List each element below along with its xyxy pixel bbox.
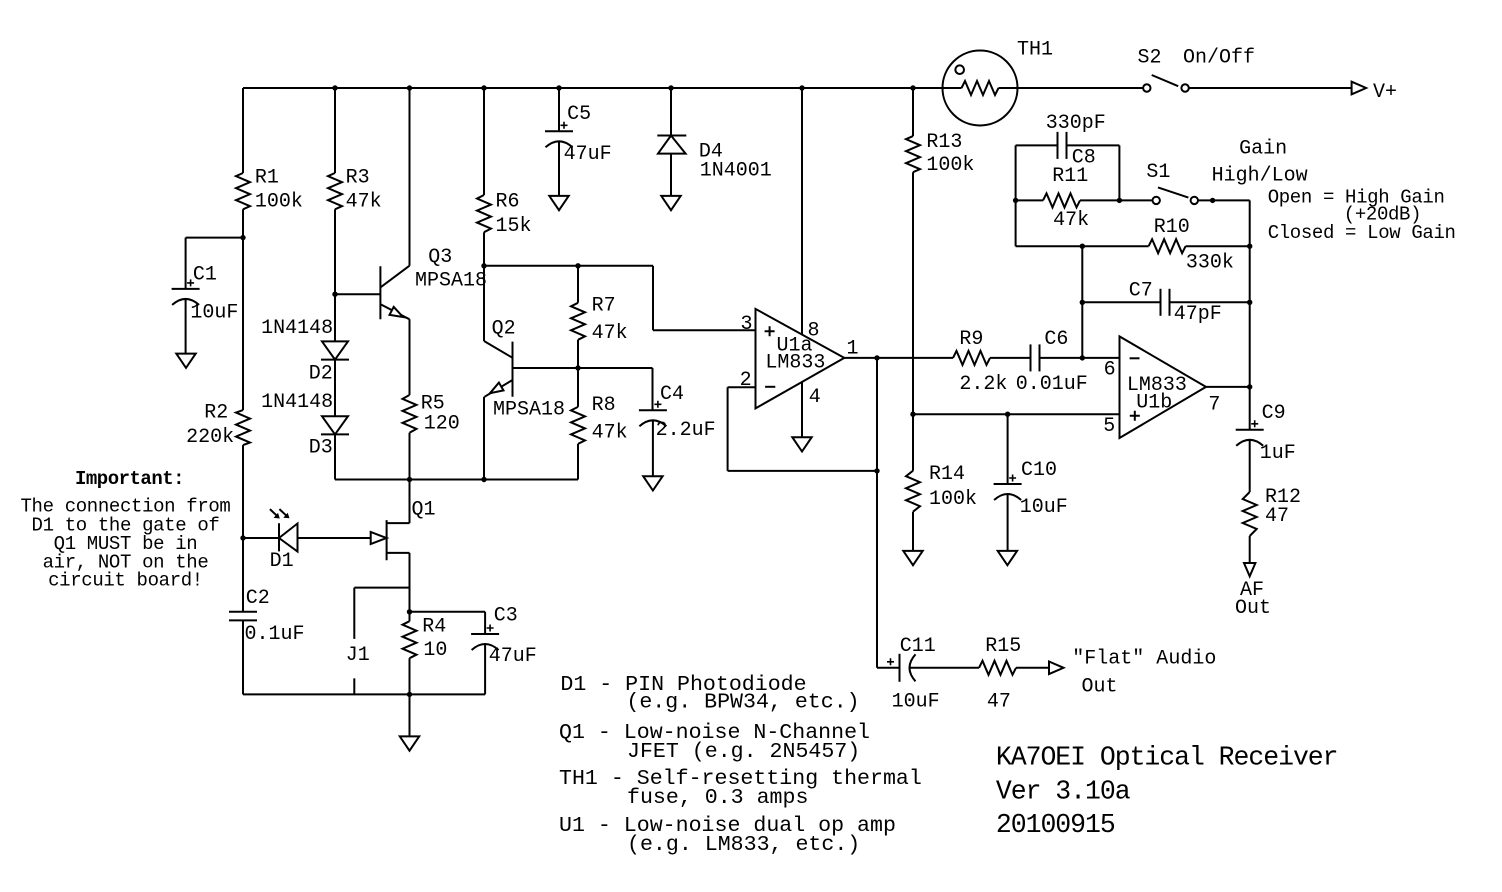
svg-text:120: 120	[424, 412, 460, 435]
svg-text:C4: C4	[660, 383, 684, 406]
svg-text:100k: 100k	[926, 154, 974, 177]
svg-text:15k: 15k	[496, 215, 532, 238]
svg-text:R14: R14	[929, 463, 965, 486]
svg-text:Q1: Q1	[412, 498, 436, 521]
svg-text:circuit board!: circuit board!	[48, 570, 203, 592]
svg-text:10: 10	[423, 639, 447, 662]
svg-text:1: 1	[847, 337, 859, 360]
svg-text:C3: C3	[494, 604, 518, 627]
svg-text:Out: Out	[1235, 597, 1271, 620]
svg-text:C6: C6	[1044, 328, 1068, 351]
svg-text:1N4148: 1N4148	[261, 317, 333, 340]
svg-text:C1: C1	[193, 264, 217, 287]
svg-text:4: 4	[809, 386, 821, 409]
svg-text:2.2k: 2.2k	[959, 373, 1007, 396]
svg-text:5: 5	[1103, 415, 1115, 438]
svg-text:47k: 47k	[592, 422, 628, 445]
svg-text:R15: R15	[985, 635, 1021, 658]
svg-text:R13: R13	[926, 131, 962, 154]
svg-text:1N4001: 1N4001	[700, 160, 772, 183]
svg-text:fuse, 0.3 amps: fuse, 0.3 amps	[627, 786, 808, 810]
svg-text:3: 3	[741, 313, 753, 336]
svg-text:47uF: 47uF	[564, 143, 612, 166]
svg-text:10uF: 10uF	[190, 301, 238, 324]
svg-text:C5: C5	[567, 103, 591, 126]
svg-text:R10: R10	[1154, 216, 1190, 239]
svg-text:MPSA18: MPSA18	[493, 399, 565, 422]
svg-text:R11: R11	[1052, 165, 1088, 188]
svg-text:7: 7	[1208, 394, 1220, 417]
svg-text:R9: R9	[959, 328, 983, 351]
svg-text:10uF: 10uF	[892, 690, 940, 713]
svg-text:D2: D2	[309, 362, 333, 385]
svg-text:R4: R4	[422, 616, 446, 639]
svg-text:S2: S2	[1138, 47, 1162, 70]
svg-text:330k: 330k	[1186, 252, 1234, 275]
svg-text:S1: S1	[1146, 161, 1170, 184]
svg-text:Gain: Gain	[1239, 138, 1287, 161]
svg-text:R8: R8	[592, 394, 616, 417]
svg-text:"Flat" Audio: "Flat" Audio	[1072, 648, 1216, 671]
svg-text:Q2: Q2	[492, 318, 516, 341]
svg-text:R2: R2	[204, 402, 228, 425]
svg-text:47k: 47k	[346, 191, 382, 214]
svg-text:220k: 220k	[186, 426, 234, 449]
svg-text:R6: R6	[496, 191, 520, 214]
svg-text:20100915: 20100915	[996, 810, 1115, 840]
svg-text:On/Off: On/Off	[1183, 47, 1255, 70]
svg-text:330pF: 330pF	[1046, 112, 1106, 135]
svg-text:100k: 100k	[929, 488, 977, 511]
svg-text:10uF: 10uF	[1020, 496, 1068, 519]
svg-text:1uF: 1uF	[1260, 442, 1296, 465]
svg-text:Q3: Q3	[428, 246, 452, 269]
svg-text:V+: V+	[1373, 81, 1397, 104]
svg-text:47: 47	[987, 690, 1011, 713]
svg-text:47k: 47k	[1053, 209, 1089, 232]
svg-text:R3: R3	[346, 166, 370, 189]
svg-text:R7: R7	[592, 294, 616, 317]
svg-text:(e.g. LM833, etc.): (e.g. LM833, etc.)	[627, 833, 860, 857]
svg-text:High/Low: High/Low	[1212, 165, 1308, 188]
svg-text:100k: 100k	[255, 191, 303, 214]
svg-text:0.1uF: 0.1uF	[245, 623, 305, 646]
svg-text:D3: D3	[309, 437, 333, 460]
svg-text:47: 47	[1265, 505, 1289, 528]
svg-text:47uF: 47uF	[489, 645, 537, 668]
svg-text:Important:: Important:	[75, 468, 184, 490]
svg-text:2: 2	[740, 369, 752, 392]
svg-text:2.2uF: 2.2uF	[656, 419, 716, 442]
svg-text:KA7OEI Optical Receiver: KA7OEI Optical Receiver	[996, 743, 1338, 773]
svg-text:47k: 47k	[592, 322, 628, 345]
svg-text:TH1: TH1	[1017, 39, 1053, 62]
svg-text:C11: C11	[900, 635, 936, 658]
svg-text:MPSA18: MPSA18	[415, 269, 487, 292]
svg-text:C9: C9	[1262, 402, 1286, 425]
svg-text:C2: C2	[246, 587, 270, 610]
svg-text:Closed = Low Gain: Closed = Low Gain	[1268, 222, 1456, 244]
svg-text:Out: Out	[1082, 675, 1118, 698]
svg-text:R1: R1	[255, 166, 279, 189]
svg-text:6: 6	[1104, 359, 1116, 382]
svg-text:JFET (e.g. 2N5457): JFET (e.g. 2N5457)	[627, 740, 860, 764]
svg-text:C7: C7	[1129, 279, 1153, 302]
svg-text:47pF: 47pF	[1174, 303, 1222, 326]
svg-text:D1: D1	[270, 550, 294, 573]
svg-text:(e.g. BPW34, etc.): (e.g. BPW34, etc.)	[626, 691, 859, 715]
svg-text:Ver 3.10a: Ver 3.10a	[996, 776, 1131, 806]
svg-text:J1: J1	[346, 644, 370, 667]
svg-text:0.01uF: 0.01uF	[1016, 373, 1088, 396]
svg-text:1N4148: 1N4148	[261, 391, 333, 414]
svg-text:C10: C10	[1021, 459, 1057, 482]
svg-text:LM833: LM833	[765, 352, 825, 375]
svg-text:U1b: U1b	[1136, 392, 1172, 415]
